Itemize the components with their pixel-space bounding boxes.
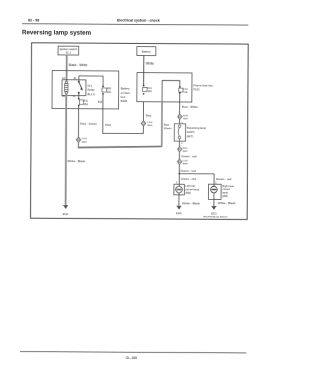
connector E011: [177, 146, 188, 153]
svg-text:Battery: Battery: [142, 49, 151, 53]
wire label Red: [105, 123, 111, 127]
svg-text:F31: F31: [84, 100, 89, 103]
relay labels: [87, 84, 95, 96]
relay switch contact: [78, 81, 83, 94]
pin label at relay box exit: [98, 101, 103, 104]
svg-text:Green - red: Green - red: [181, 177, 197, 181]
connector on red-green wire: [76, 137, 87, 143]
wire label Red (upper): [146, 114, 152, 118]
wire label White - Black (left lamp): [182, 201, 200, 205]
svg-text:Battery: Battery: [121, 87, 130, 91]
svg-text:Black - White: Black - White: [69, 63, 88, 67]
lamp feed wire down: [178, 139, 180, 174]
wire label White: [146, 62, 154, 66]
wire label Green - red: [180, 169, 196, 173]
wire label Black - White: [69, 63, 88, 67]
reversing lamp switch box: [174, 122, 185, 145]
wire label Red - Green: [80, 122, 97, 126]
lamp feed riser wire: [162, 80, 180, 146]
left lamp ground wire: [178, 193, 180, 206]
svg-text:4B05: 4B05: [147, 125, 153, 127]
footer rule: [20, 352, 246, 353]
svg-text:Green - red: Green - red: [216, 177, 232, 181]
fuse EB6 in relay box: [102, 86, 112, 95]
jumper wire switch to fuse: [79, 76, 103, 86]
wire fuse to reversing lamp switch (Red - White): [179, 93, 181, 123]
svg-text:White - Black: White - Black: [218, 201, 236, 205]
relay unit outer box: [52, 71, 119, 109]
wire fuse down and across to frame fuse box (Red): [103, 95, 144, 134]
svg-text:E011: E011: [183, 148, 189, 150]
page title: [22, 29, 92, 36]
left lamp labels: [185, 184, 199, 195]
svg-text:E012: E012: [63, 213, 69, 216]
svg-text:GL-188: GL-188: [126, 356, 137, 360]
svg-text:Electrical system - check: Electrical system - check: [117, 18, 160, 22]
ignition switch box: [58, 46, 79, 55]
relay coil ground wire (White - Black): [65, 94, 68, 205]
drawing number: [203, 216, 228, 219]
svg-text:4B06: 4B06: [82, 141, 88, 143]
left reversing lamp: [174, 184, 184, 195]
svg-text:E06: E06: [107, 87, 112, 90]
svg-text:IG 1: IG 1: [66, 51, 72, 55]
svg-text:B10: B10: [98, 101, 103, 104]
pin label left lamp: [176, 181, 178, 184]
svg-text:White: White: [146, 62, 154, 66]
wire battery to fuse box (White): [143, 55, 145, 85]
wire label Red - White: [182, 105, 198, 109]
svg-text:BL1 6: BL1 6: [87, 92, 95, 96]
header section title: [117, 18, 160, 22]
svg-text:F101: F101: [193, 87, 200, 91]
svg-text:Relay: Relay: [87, 88, 95, 92]
junction split to lamps: [178, 173, 180, 175]
svg-text:Red - White: Red - White: [182, 105, 198, 109]
svg-text:Green - red: Green - red: [180, 169, 196, 173]
relay inner box: [62, 80, 86, 96]
svg-text:box: box: [121, 95, 126, 99]
relay coil: [65, 81, 68, 94]
svg-text:Green - red: Green - red: [181, 154, 197, 158]
svg-text:15A: 15A: [84, 103, 89, 106]
svg-text:10A: 10A: [147, 90, 152, 93]
svg-text:4B07: 4B07: [183, 151, 189, 153]
wire label Green - red (right): [216, 177, 232, 181]
wire label White - Black: [67, 159, 85, 163]
svg-text:White - Black: White - Black: [67, 159, 85, 163]
wire label Red - Green (2 lines): [164, 123, 172, 130]
svg-text:Frame fuse box: Frame fuse box: [193, 83, 213, 87]
pin label right lamp: [215, 181, 217, 184]
svg-text:IG1: IG1: [88, 84, 93, 88]
right reversing lamp: [208, 184, 221, 199]
svg-text:F1B: F1B: [184, 89, 189, 91]
svg-text:4B08: 4B08: [183, 163, 189, 165]
svg-text:82 - 98: 82 - 98: [28, 18, 39, 22]
svg-text:4B07: 4B07: [183, 118, 189, 120]
battery-on-frame note: [121, 87, 131, 104]
svg-text:(M/T): (M/T): [187, 134, 194, 138]
wire label Green - red (left): [181, 177, 197, 181]
ground left lamp: [176, 206, 182, 215]
connector on red wire: [141, 121, 153, 128]
footer page code: [126, 356, 137, 360]
svg-text:Green: Green: [164, 126, 172, 130]
right lamp ground wire: [213, 193, 215, 206]
svg-text:F14: F14: [148, 87, 153, 90]
svg-text:Reversing lamp system: Reversing lamp system: [22, 29, 92, 36]
relay pin numbers: [62, 77, 77, 98]
svg-text:C100: C100: [147, 122, 153, 124]
header rule: [22, 24, 248, 25]
header page number: [28, 18, 39, 22]
right lamp labels: [222, 184, 234, 198]
fuse F14: [143, 85, 153, 95]
svg-text:Red: Red: [146, 114, 152, 118]
battery box: [137, 47, 156, 56]
fuse F1B: [179, 86, 188, 94]
svg-text:White - Black: White - Black: [182, 201, 200, 205]
svg-text:switch: switch: [187, 130, 195, 134]
frame fuse box label: [193, 83, 213, 91]
svg-text:Red: Red: [105, 123, 111, 127]
svg-text:C102: C102: [183, 160, 189, 162]
svg-text:E021: E021: [211, 212, 217, 215]
reversing lamp switch labels: [187, 126, 207, 139]
wire label Green - red: [181, 154, 197, 158]
svg-text:E031: E031: [183, 115, 189, 117]
wire relay output down (Red - Green): [78, 106, 80, 137]
connector C102: [177, 159, 188, 166]
ground relay coil: [63, 205, 69, 216]
svg-text:C100: C100: [82, 138, 88, 140]
fuse 15A below relay switch: [78, 93, 80, 99]
diagram frame: [31, 43, 249, 220]
svg-text:E041: E041: [176, 212, 182, 215]
wire down and right to lamp feed: [77, 143, 79, 148]
ground right lamp: [211, 206, 217, 215]
svg-text:Reversing lamp: Reversing lamp: [187, 126, 207, 130]
frame fuse box: [137, 73, 192, 102]
wire ignition to relay coil (Black-White): [66, 55, 68, 81]
svg-text:on floor: on floor: [121, 91, 130, 95]
wire label White - Black (right lamp): [218, 201, 236, 205]
svg-text:10A: 10A: [107, 91, 112, 94]
svg-text:Red - Green: Red - Green: [80, 122, 97, 126]
svg-text:B100: B100: [121, 99, 128, 103]
connector on red-white wire: [178, 114, 189, 121]
